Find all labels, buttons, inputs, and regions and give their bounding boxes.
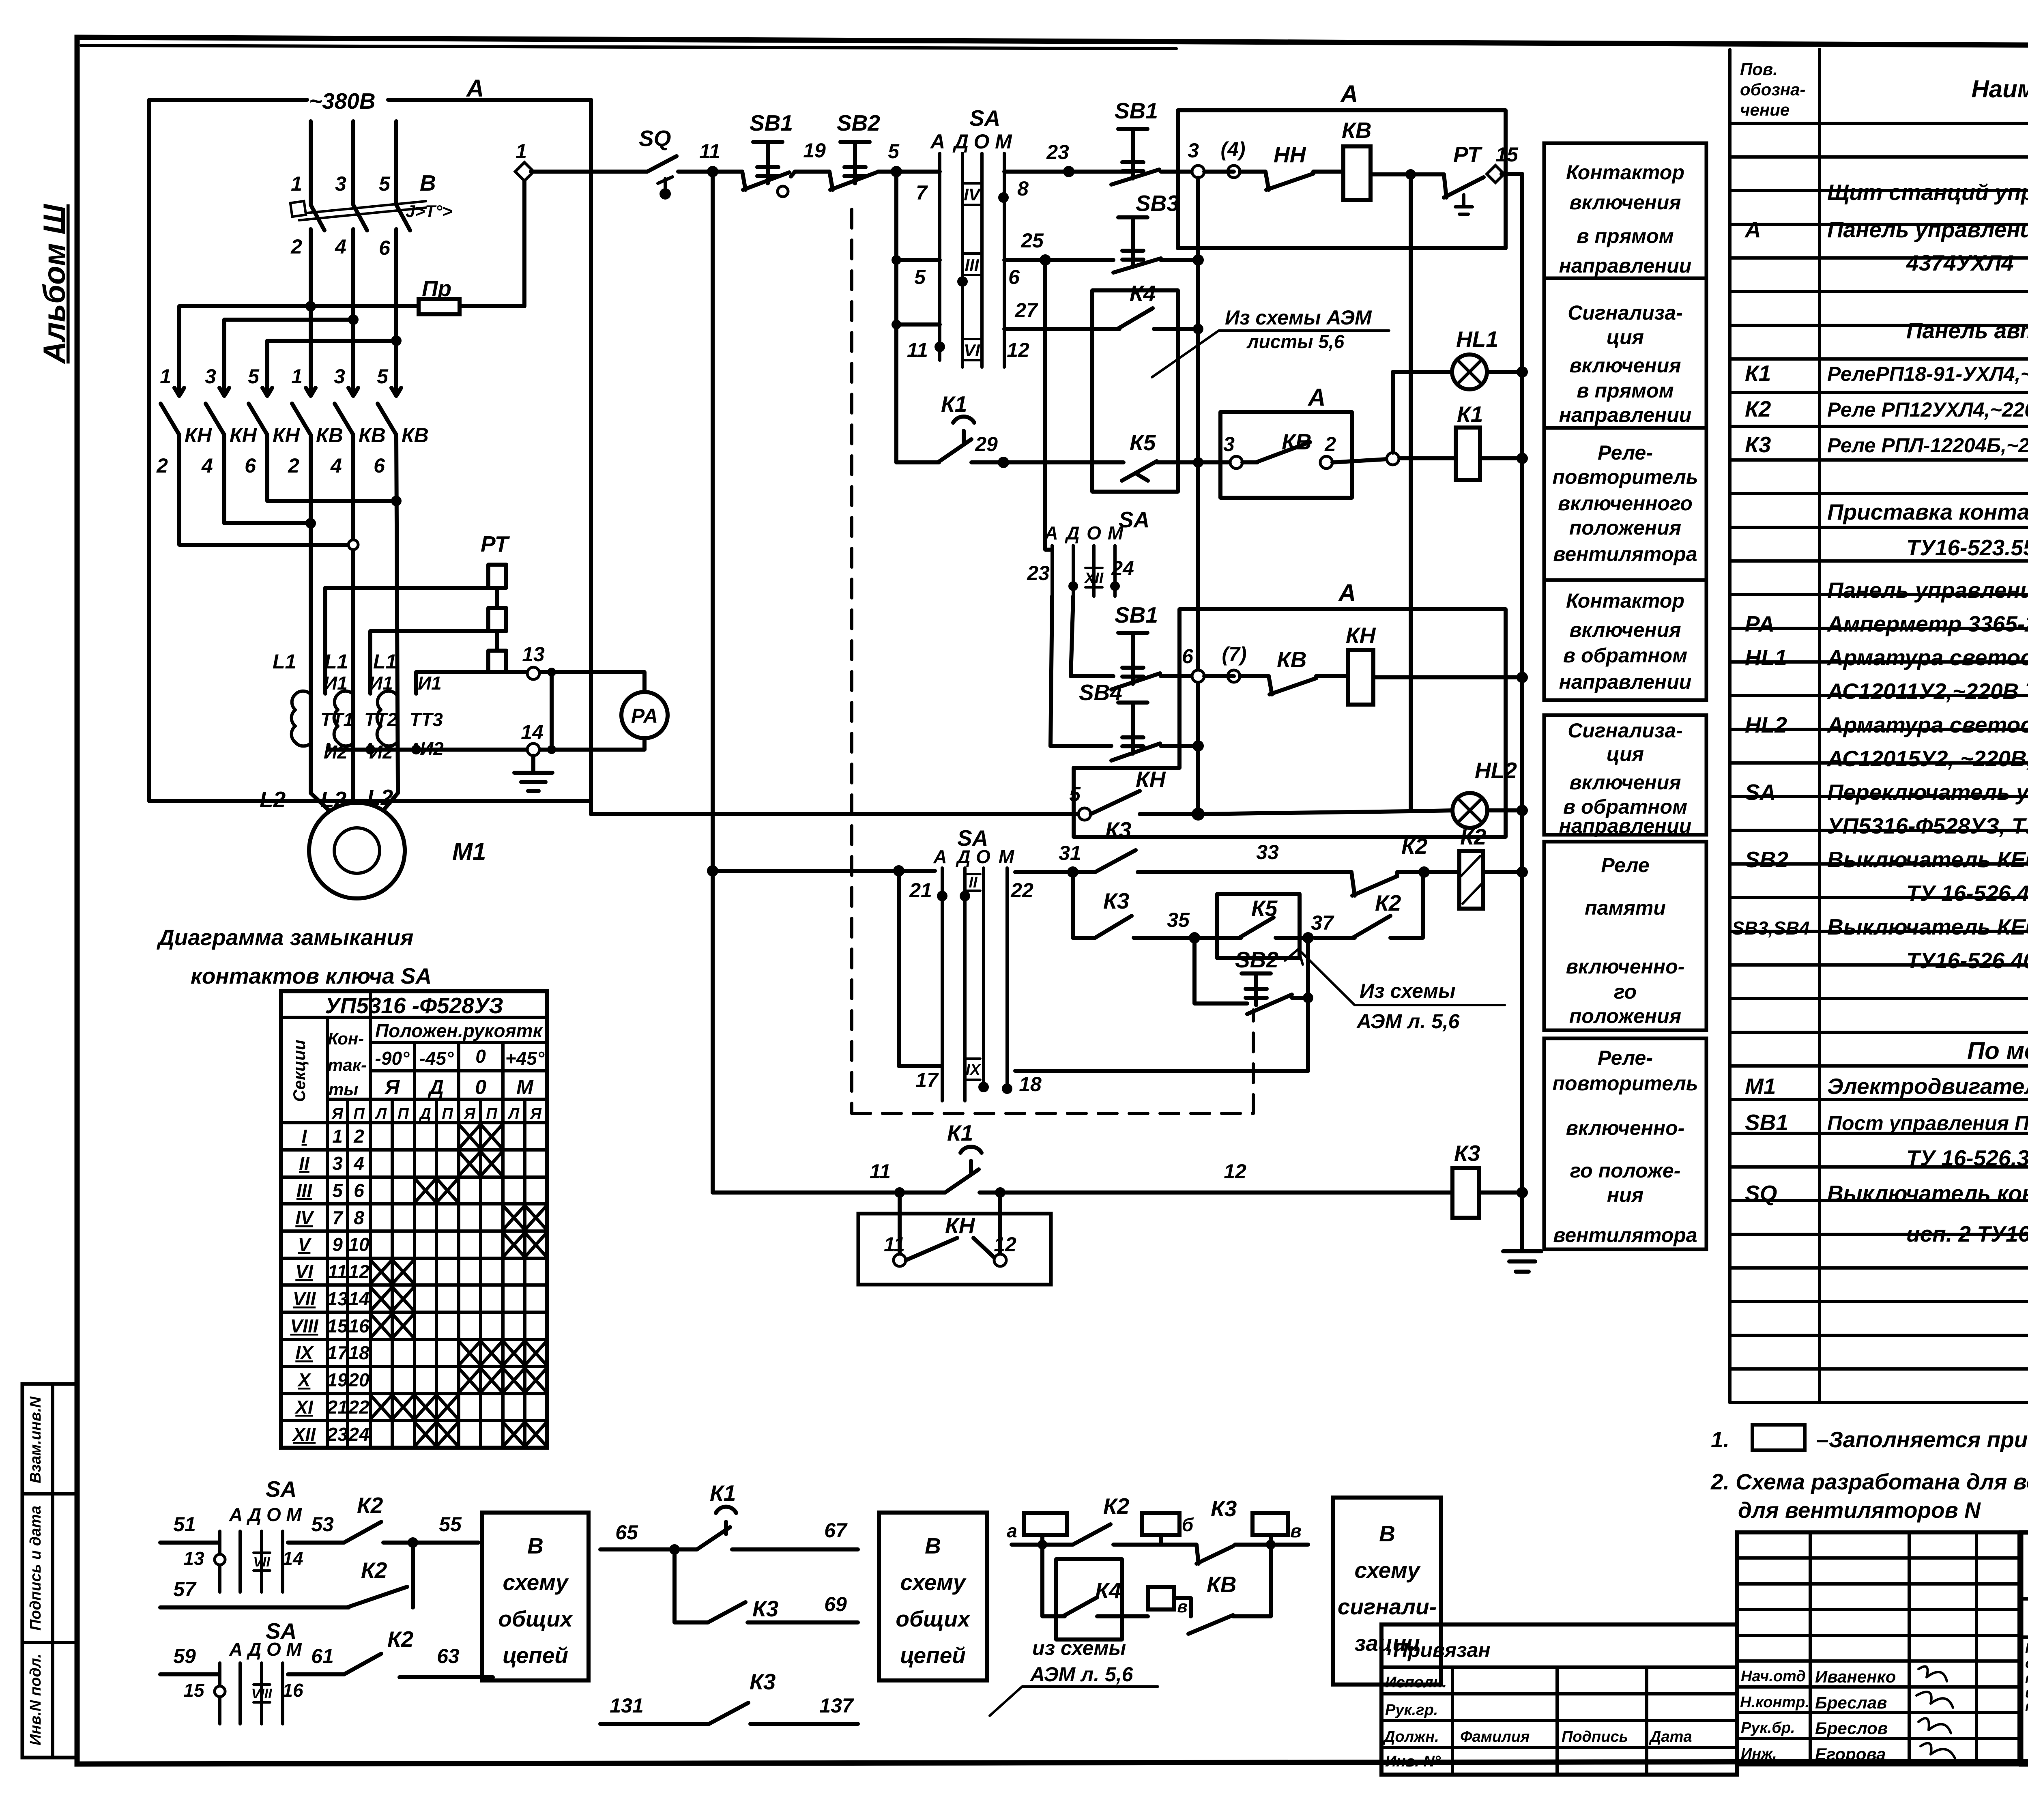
svg-text:35: 35 [1167, 909, 1190, 931]
svg-text:А: А [933, 846, 947, 867]
svg-text:направлении: направлении [1559, 814, 1692, 837]
wire 33 to K2 NC [1138, 870, 1351, 874]
contact KV abv [1174, 1545, 1271, 1634]
svg-text:повторитель: повторитель [1552, 466, 1698, 488]
RT heater element meander [488, 565, 506, 672]
bottom SA row1 wire 53 [288, 1541, 344, 1545]
parts table header texts [1740, 60, 2028, 119]
svg-text:В: В [420, 170, 436, 196]
wire to KN contact [1204, 170, 1265, 174]
svg-text:ТУ16-523.554-78: ТУ16-523.554-78 [1906, 535, 2028, 560]
branch to K3 row [675, 1549, 708, 1622]
svg-text:Реле РП12УХЛ4,~220В, ТУ16-523.: Реле РП12УХЛ4,~220В, ТУ16-523.072-75 [1827, 398, 2028, 421]
svg-text:1.: 1. [1711, 1427, 1729, 1452]
svg-text:Щит станций управления: Щит станций управления [1827, 180, 2028, 205]
bottom SA row1 columns [220, 1531, 283, 1592]
svg-text:а: а [1007, 1520, 1017, 1541]
wire 67 [732, 1547, 858, 1551]
svg-text:ЭлектродвигательВАСО15-23-34У1: ЭлектродвигательВАСО15-23-34У1 [1827, 1074, 2028, 1099]
bottom SA row2 wire 61 [288, 1672, 344, 1676]
svg-text:Арматура светосигнальная: Арматура светосигнальная [1826, 712, 2028, 737]
svg-text:включенно-: включенно- [1566, 1117, 1685, 1139]
svg-text:памяти: памяти [1585, 896, 1666, 919]
svg-text:Дата: Дата [1649, 1728, 1692, 1745]
svg-text:69: 69 [824, 1593, 847, 1616]
svg-text:SA: SA [1745, 780, 1776, 805]
callout from AEM sheet lower [1285, 949, 1505, 1033]
svg-text:К2: К2 [1401, 834, 1428, 859]
svg-text:6: 6 [1008, 266, 1020, 288]
svg-text:3: 3 [335, 172, 346, 195]
svg-text:УП5316-Ф528УЗ, ТУ16-524,074-7: УП5316-Ф528УЗ, ТУ16-524,074-75 [1827, 813, 2028, 838]
svg-text:Д: Д [955, 846, 970, 867]
contact K5 lower [1217, 896, 1308, 938]
button SB3 [1113, 191, 1179, 273]
svg-text:12: 12 [994, 1233, 1016, 1256]
svg-text:5: 5 [248, 365, 260, 388]
SA lower bottom dots [978, 1082, 989, 1092]
third SA numeral XII [1084, 568, 1104, 587]
svg-text:К2: К2 [1375, 890, 1401, 915]
terminal block v [1252, 1513, 1288, 1535]
svg-text:20: 20 [348, 1369, 370, 1390]
svg-text:ТУ 16-526.333-80: ТУ 16-526.333-80 [1906, 1145, 2028, 1171]
svg-text:XII: XII [1084, 570, 1104, 587]
contact K2 abv [1073, 1493, 1130, 1545]
svg-text:К3: К3 [1103, 888, 1129, 913]
svg-text:11: 11 [699, 140, 720, 163]
wire HL2 to bus [1487, 808, 1522, 812]
wire HL1 to bus [1487, 370, 1522, 374]
svg-text:КН: КН [230, 424, 257, 447]
svg-text:общих: общих [498, 1606, 574, 1631]
KN bypass contact [906, 1238, 994, 1260]
terminal 15 [1487, 165, 1504, 183]
reverse rail SB1 wire [1071, 674, 1113, 678]
svg-text:М1: М1 [1745, 1074, 1776, 1099]
svg-text:обозна-: обозна- [1740, 80, 1805, 99]
svg-text:IV: IV [295, 1207, 314, 1228]
I2 bus row with terminal 14 [329, 745, 644, 750]
svg-text:Контактор: Контактор [1566, 161, 1684, 184]
svg-text:11: 11 [884, 1233, 905, 1256]
svg-text:67: 67 [824, 1519, 848, 1542]
terminal 5 KN aux [1078, 808, 1091, 820]
svg-text:К2: К2 [357, 1493, 383, 1518]
svg-text:3: 3 [1223, 433, 1235, 456]
bottom SA row2 wire 59 [160, 1672, 219, 1676]
svg-text:SA: SA [969, 105, 1000, 131]
box to common circuits 2 [879, 1513, 987, 1680]
svg-text:5: 5 [888, 140, 900, 163]
svg-text:К3: К3 [752, 1596, 778, 1621]
SA switch upper section columns [940, 153, 1004, 367]
svg-text:1: 1 [160, 365, 171, 388]
CT coil TT1 [292, 691, 311, 746]
CT coil TT2 [334, 691, 353, 746]
svg-text:L2: L2 [260, 787, 286, 812]
contactor coil KN [1348, 650, 1373, 705]
svg-text:РТ: РТ [481, 531, 510, 557]
svg-text:положения: положения [1569, 1005, 1681, 1027]
svg-text:А: А [466, 75, 484, 102]
svg-text:цепей: цепей [900, 1643, 966, 1668]
wire SB2 to node 5 [878, 170, 940, 174]
svg-text:Подпись и дата: Подпись и дата [27, 1506, 44, 1631]
wire to KV NC [1204, 674, 1269, 678]
SA section III [963, 254, 980, 275]
wire KN contact to KV coil [1313, 170, 1343, 174]
contact numbers 1 3 5 1 3 5 [160, 365, 389, 388]
contact K1 aux [697, 1507, 736, 1549]
svg-text:Альбом Ш: Альбом Ш [37, 204, 72, 364]
svg-text:Амперметр 3365-2: Амперметр 3365-2 [1826, 611, 2028, 636]
svg-text:-90°: -90° [375, 1048, 410, 1069]
svg-text:пленочная с секциями пло-: пленочная с секциями пло- [2025, 1671, 2028, 1686]
svg-text:Взам.инв.N: Взам.инв.N [27, 1396, 44, 1483]
lamp HL1 [1452, 327, 1498, 389]
K5 box lower [1217, 894, 1300, 958]
svg-text:КВ: КВ [1207, 1572, 1237, 1597]
terminal circle 13 [527, 667, 539, 679]
svg-text:К1: К1 [1745, 361, 1771, 386]
svg-text:го: го [1614, 980, 1637, 1003]
svg-text:включения: включения [1569, 771, 1681, 794]
svg-text:схему: схему [1355, 1558, 1421, 1583]
SA contact diagram title [157, 925, 432, 988]
ground at terminal 14 [514, 756, 552, 791]
svg-text:SB1: SB1 [1745, 1110, 1788, 1135]
svg-text:4: 4 [335, 235, 346, 258]
svg-text:КН: КН [945, 1213, 975, 1238]
svg-text:M: M [995, 130, 1012, 153]
svg-text:Егорова: Егорова [1815, 1745, 1886, 1764]
wire into KV aux [1198, 460, 1230, 464]
wire 65 [600, 1547, 697, 1551]
svg-text:13: 13 [183, 1548, 204, 1569]
svg-text:К5: К5 [1251, 896, 1278, 921]
dashed linkage SB2 [852, 209, 1253, 1113]
wire K1 contact to node 29 to K5 [971, 460, 1092, 464]
svg-text:3: 3 [205, 365, 216, 388]
notes line 1 [1711, 1425, 2028, 1452]
third SA labels A D O M [1044, 522, 1124, 544]
svg-text:листы 5,6: листы 5,6 [1246, 331, 1345, 352]
svg-text:3: 3 [334, 365, 345, 388]
button SB1 reverse [1111, 602, 1160, 690]
wire to node 35 [1134, 936, 1217, 940]
SA lower block columns [942, 868, 1007, 1101]
svg-text:К1: К1 [710, 1480, 736, 1506]
svg-text:Панель управления ПОУ5430-: Панель управления ПОУ5430- [1827, 217, 2028, 242]
svg-text:исп. 2 ТУ16-526.351-74: исп. 2 ТУ16-526.351-74 [1906, 1221, 2028, 1246]
svg-text:0: 0 [475, 1076, 486, 1098]
svg-text:чение: чение [1740, 100, 1790, 119]
svg-text:L1: L1 [373, 650, 397, 673]
svg-text:16: 16 [282, 1680, 303, 1701]
svg-text:SB2: SB2 [1235, 947, 1278, 972]
junction dot L1 fuse tap [305, 301, 316, 312]
main title block [2021, 1532, 2028, 1764]
svg-text:И1: И1 [369, 673, 393, 694]
svg-text:11: 11 [870, 1160, 891, 1183]
svg-text:в прямом: в прямом [1577, 225, 1674, 247]
wire 137 [750, 1722, 858, 1726]
svg-text:27: 27 [1014, 299, 1038, 322]
SA section VI [963, 339, 980, 360]
svg-text:в: в [1290, 1520, 1302, 1541]
wire to K2 coil [1397, 870, 1459, 874]
panel A box forward group [1178, 110, 1506, 248]
svg-text:К3: К3 [1454, 1141, 1480, 1166]
svg-text:включения: включения [1569, 354, 1681, 377]
bottom rail K3 [713, 1190, 945, 1195]
terminal 3 in box [1230, 456, 1242, 468]
svg-text:14: 14 [282, 1548, 303, 1569]
svg-text:в обратном: в обратном [1563, 644, 1687, 667]
svg-text:137: 137 [819, 1694, 854, 1717]
svg-text:ты: ты [329, 1080, 358, 1099]
panel A box reverse group stepped [1074, 609, 1506, 837]
svg-text:из схемы: из схемы [1032, 1637, 1126, 1659]
node3 bus vertical [1196, 178, 1200, 814]
svg-text:11: 11 [907, 339, 928, 361]
svg-text:131: 131 [610, 1694, 643, 1717]
svg-text:Пост управления ПКУ15-19,131: Пост управления ПКУ15-19,131-54У2 [1827, 1112, 2028, 1135]
junction KN rail node3 bus [1192, 808, 1205, 821]
wire KN coil to bus [1373, 675, 1522, 679]
contact K3 memory [1095, 817, 1136, 872]
svg-text:Положен.рукоятк: Положен.рукоятк [375, 1020, 544, 1041]
svg-text:О: О [974, 130, 990, 153]
svg-text:SQ: SQ [1745, 1181, 1777, 1206]
svg-text:в: в [1177, 1597, 1187, 1616]
contact K3 lower [1095, 888, 1132, 938]
node 3 terminal circle [1192, 165, 1204, 178]
svg-text:вентилятора: вентилятора [1553, 543, 1697, 565]
svg-text:6: 6 [379, 236, 391, 259]
svg-text:Наименование: Наименование [1971, 75, 2028, 103]
contactor coil KV [1343, 146, 1371, 200]
svg-text:Ј>T°>: Ј>T°> [406, 202, 452, 221]
description box 2 signal forward [1544, 278, 1706, 428]
svg-text:РА: РА [1745, 611, 1774, 636]
SA dot D line [957, 276, 968, 287]
svg-text:23: 23 [1027, 562, 1050, 584]
svg-text:Из схемы: Из схемы [1360, 980, 1456, 1002]
svg-text:–Заполняется при привязке п: –Заполняется при привязке проекта [1816, 1427, 2028, 1452]
svg-text:Бреслов: Бреслов [1815, 1719, 1888, 1738]
button SB1 second [1111, 98, 1159, 185]
SB2 bypass wire [1194, 938, 1247, 1003]
svg-text:(4): (4) [1220, 138, 1245, 161]
svg-text:направлении: направлении [1559, 404, 1692, 426]
svg-text:SB4: SB4 [1079, 680, 1122, 705]
relay coil K2 hatched [1459, 824, 1487, 909]
terminal block small [1148, 1587, 1174, 1609]
contact K1 bottom [945, 1120, 982, 1193]
svg-text:65: 65 [615, 1521, 638, 1544]
svg-text:ТТ1: ТТ1 [320, 709, 354, 730]
node 23 [1063, 166, 1074, 177]
SA lower numeral IX [966, 1059, 982, 1080]
svg-text:цепей: цепей [503, 1643, 568, 1668]
svg-text:К2: К2 [1103, 1493, 1130, 1519]
svg-text:К5: К5 [1130, 430, 1156, 455]
box to common circuits 1 [482, 1513, 589, 1680]
svg-text:сигнали-: сигнали- [1338, 1594, 1437, 1619]
wire K2 coil to bus [1483, 870, 1522, 874]
svg-text:Контактор: Контактор [1566, 589, 1684, 612]
svg-text:M: M [1108, 522, 1124, 544]
svg-text:Нач.отд: Нач.отд [1741, 1668, 1806, 1685]
notes line 3 [1738, 1493, 2028, 1523]
svg-text:В: В [527, 1533, 544, 1558]
svg-text:ным каркасом.: ным каркасом. [2025, 1699, 2028, 1714]
svg-text:23: 23 [327, 1424, 348, 1445]
diagram data rows [290, 1125, 546, 1446]
row 57 with K2 bypass [160, 1605, 349, 1609]
svg-text:SA: SA [1119, 507, 1149, 532]
third SA dots [1068, 581, 1078, 591]
callout iz shemy AEM bottom [990, 1637, 1158, 1716]
svg-text:КВ: КВ [1282, 429, 1312, 454]
description box 3 relay repeater fan [1544, 428, 1706, 580]
box to signal circuits [1333, 1498, 1441, 1685]
contact K3 131 [709, 1669, 776, 1724]
svg-text:Я: Я [384, 1076, 400, 1098]
node 25 [1040, 254, 1051, 266]
svg-text:L1: L1 [324, 650, 348, 673]
svg-text:1: 1 [332, 1126, 343, 1147]
CT secondary row I1 TT1 [325, 588, 488, 694]
svg-text:M: M [999, 846, 1015, 867]
svg-text:К3: К3 [1211, 1496, 1237, 1521]
svg-text:А: А [1340, 80, 1358, 107]
CT secondary row I1 TT2 [370, 631, 488, 694]
svg-text:О: О [1087, 522, 1101, 544]
contact K3 abv [1161, 1496, 1237, 1564]
svg-text:К1: К1 [941, 391, 967, 417]
NC contact KV on reverse rail [1269, 647, 1316, 694]
svg-text:5: 5 [379, 172, 391, 195]
svg-text:15: 15 [183, 1680, 205, 1701]
relay coil K3 [1452, 1168, 1479, 1218]
lamp HL2 [1452, 758, 1517, 828]
svg-text:ТУ 16-526.407-79: ТУ 16-526.407-79 [1906, 881, 2028, 906]
crossover row KN1 top [177, 306, 181, 367]
svg-text:12: 12 [348, 1261, 370, 1282]
svg-text:SB3,SB4: SB3,SB4 [1732, 918, 1810, 939]
svg-text:Арматура светосигнальная: Арматура светосигнальная [1826, 645, 2028, 670]
svg-text:схему: схему [503, 1570, 569, 1595]
node 29 [998, 457, 1009, 468]
contact K2 row1 [344, 1493, 383, 1543]
svg-text:О: О [976, 846, 990, 867]
svg-text:общих: общих [896, 1606, 971, 1631]
description box 4 Kontaktor reverse [1544, 580, 1706, 700]
svg-text:-45°: -45° [419, 1048, 454, 1069]
NC contact KN on rail1 [1265, 142, 1313, 190]
svg-text:3: 3 [332, 1153, 343, 1174]
wire SB4 to node3 bus [1161, 744, 1198, 748]
wire row abv [1012, 1535, 1073, 1545]
svg-text:Реле-: Реле- [1598, 1046, 1653, 1069]
svg-text:HL1: HL1 [1745, 645, 1787, 670]
svg-text:31: 31 [1059, 842, 1081, 864]
svg-text:Д: Д [419, 1105, 431, 1122]
svg-text:8: 8 [354, 1207, 364, 1228]
svg-text:направлении: направлении [1559, 254, 1692, 277]
svg-text:б: б [1182, 1514, 1194, 1535]
svg-text:КВ: КВ [359, 424, 386, 447]
svg-text:XII: XII [292, 1424, 316, 1445]
svg-text:3: 3 [1188, 139, 1199, 162]
svg-text:схему: схему [900, 1570, 967, 1595]
KN aux rail [591, 812, 1078, 816]
svg-text:К2: К2 [1745, 396, 1771, 421]
description box 6 memory relay [1544, 842, 1706, 1030]
callout text from AEM sheet upper [1152, 306, 1389, 377]
svg-text:0: 0 [475, 1046, 486, 1067]
svg-text:Инв. N°: Инв. N° [1385, 1753, 1441, 1770]
rail2 SA stub 5 [896, 172, 940, 462]
wire rail1 M line to node 23 to SB1-2 [1004, 170, 1132, 174]
svg-text:Из схемы АЭМ: Из схемы АЭМ [1225, 306, 1372, 329]
svg-text:37: 37 [1311, 911, 1334, 934]
svg-text:П: П [353, 1105, 365, 1122]
svg-text:8: 8 [1017, 177, 1029, 200]
crossover bottom row 553 to 766 [224, 435, 311, 523]
svg-text:SB3: SB3 [1136, 191, 1179, 216]
svg-text:Рук.гр.: Рук.гр. [1385, 1702, 1438, 1719]
svg-text:HL1: HL1 [1456, 327, 1498, 352]
svg-text:4: 4 [201, 454, 213, 477]
svg-text:III: III [296, 1180, 313, 1201]
svg-text:14: 14 [521, 721, 544, 743]
svg-text:КВ: КВ [402, 424, 429, 447]
link 13-14 vertical [550, 672, 554, 750]
svg-text:17: 17 [915, 1069, 939, 1092]
svg-text:4374УХЛ4: 4374УХЛ4 [1906, 250, 2014, 275]
wire K3 coil to bus [1479, 1190, 1522, 1195]
svg-text:Инж.: Инж. [1741, 1745, 1777, 1762]
svg-text:23: 23 [1046, 141, 1069, 163]
wire K1 coil to bus [1480, 456, 1522, 460]
contact numbers 2 4 6 2 4 6 [156, 454, 385, 477]
svg-text:включенного: включенного [1558, 492, 1693, 515]
contact K1 with chevron [938, 391, 974, 462]
node 5 [891, 166, 902, 177]
svg-text:4: 4 [353, 1153, 364, 1174]
svg-text:II: II [299, 1153, 310, 1174]
svg-text:X: X [297, 1369, 312, 1390]
crossover row KN3 top [267, 341, 396, 367]
phase line L1 [311, 121, 337, 819]
terminal block a [1024, 1513, 1067, 1535]
svg-text:ния: ния [1607, 1184, 1643, 1206]
svg-text:Инв.N подл.: Инв.N подл. [27, 1654, 44, 1745]
svg-text:К2: К2 [361, 1558, 387, 1583]
wire to KN coil [1316, 674, 1348, 678]
node 6 terminal [1192, 670, 1204, 682]
svg-text:15: 15 [327, 1315, 348, 1337]
SA lower numeral II [966, 874, 980, 891]
svg-text:По месту: По месту [1967, 1037, 2028, 1064]
svg-text:КВ: КВ [1342, 118, 1372, 143]
svg-text:контактов ключа SА: контактов ключа SА [191, 963, 432, 988]
svg-text:~380B: ~380B [309, 88, 376, 114]
